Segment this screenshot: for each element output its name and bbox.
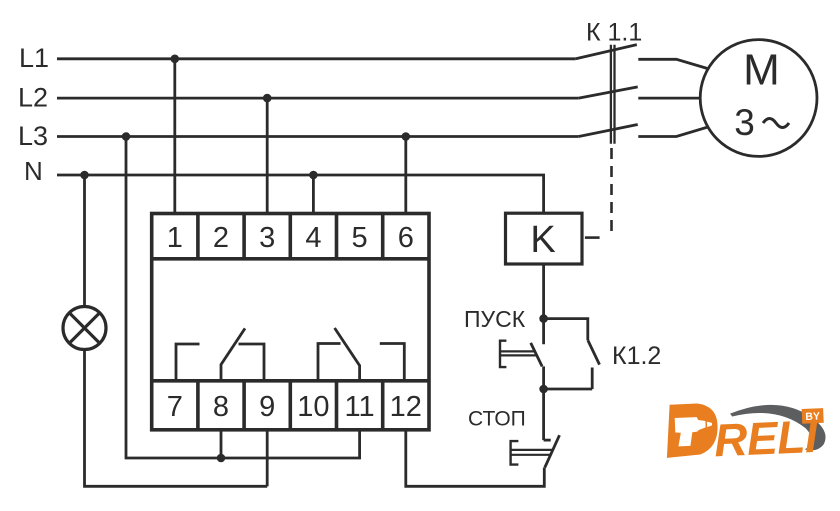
wire N to terminal 4 xyxy=(312,175,315,214)
junction N / lamp branch xyxy=(80,171,89,180)
wire terminal 9 down xyxy=(266,430,269,487)
junction L2 / terminal 3 xyxy=(263,94,272,103)
svg-text:1: 1 xyxy=(167,222,183,254)
svg-text:M: M xyxy=(743,46,780,95)
K1.1 mechanical linkage xyxy=(611,45,615,144)
svg-text:11: 11 xyxy=(345,391,375,423)
svg-text:9: 9 xyxy=(259,391,275,423)
wire L2 xyxy=(57,97,579,100)
svg-text:5: 5 xyxy=(352,222,368,254)
relay terminal block outline xyxy=(152,214,429,430)
svg-text:7: 7 xyxy=(167,391,183,423)
svg-text:К 1.1: К 1.1 xyxy=(586,19,642,47)
svg-text:ПУСК: ПУСК xyxy=(464,306,526,332)
junction below K1.2 xyxy=(539,385,548,394)
wire L3 xyxy=(57,135,579,138)
junction terminal 8 wire xyxy=(217,454,226,463)
junction L1 / terminal 1 xyxy=(171,55,180,64)
relay changeover contact 7-8-9 xyxy=(176,328,264,380)
stop button СТОП (NC) xyxy=(511,435,560,467)
junction L3 left branch xyxy=(122,132,131,141)
svg-text:3: 3 xyxy=(259,222,275,254)
wire L1 to terminal 1 xyxy=(173,59,176,214)
svg-text:2: 2 xyxy=(213,222,229,254)
svg-text:8: 8 xyxy=(213,391,229,423)
wire K1.1 pole 3 to motor xyxy=(638,127,708,137)
svg-text:3: 3 xyxy=(734,102,755,143)
dashed link K1.1 to coil K xyxy=(610,148,613,238)
lamp HL xyxy=(63,307,106,350)
svg-text:К1.2: К1.2 xyxy=(612,342,661,370)
svg-text:N: N xyxy=(24,156,43,186)
wire L1 xyxy=(57,57,576,60)
motor M 3~ xyxy=(700,40,817,157)
svg-text:BY: BY xyxy=(805,410,820,423)
svg-text:4: 4 xyxy=(305,222,321,254)
wire K1.1 pole 2 to motor xyxy=(638,97,700,100)
node ПУСК junction xyxy=(539,314,548,323)
auxiliary contact K1.2 xyxy=(544,319,600,389)
coil K xyxy=(506,213,583,264)
contactor contact K1.1 pole 2 xyxy=(579,87,638,98)
svg-text:6: 6 xyxy=(398,222,414,254)
logo Dreli xyxy=(665,398,827,468)
svg-text:СТОП: СТОП xyxy=(468,408,526,431)
wire lamp to terminal 9 xyxy=(85,350,268,487)
wire terminal 8 down xyxy=(220,430,223,458)
wire K1.1 pole 1 to motor xyxy=(638,59,708,68)
svg-text:12: 12 xyxy=(390,391,422,423)
svg-text:10: 10 xyxy=(297,391,329,423)
wire L2 to terminal 3 xyxy=(266,98,269,213)
wire L3 branch down-left to terminals 8 and 11 xyxy=(126,137,360,459)
start button ПУСК (NO) xyxy=(500,341,544,389)
wire terminal 12 to stop button xyxy=(406,430,545,487)
svg-text:L1: L1 xyxy=(19,43,49,73)
wire N down to lamp xyxy=(83,175,86,307)
wire N to coil K xyxy=(57,175,544,213)
junction N / terminal 4 xyxy=(309,171,318,180)
wire L3 to terminal 6 xyxy=(404,137,407,214)
svg-text:L3: L3 xyxy=(18,121,48,151)
svg-text:L2: L2 xyxy=(18,83,48,113)
contactor contact K1.1 pole 1 xyxy=(576,45,637,59)
svg-text:K: K xyxy=(530,219,555,261)
wire to stop button xyxy=(542,389,545,440)
relay changeover contact 10-11-12 xyxy=(318,328,404,381)
contactor contact K1.1 pole 3 xyxy=(579,125,638,137)
wire coil K to start button xyxy=(542,264,545,344)
junction L3 / terminal 6 xyxy=(402,132,411,141)
